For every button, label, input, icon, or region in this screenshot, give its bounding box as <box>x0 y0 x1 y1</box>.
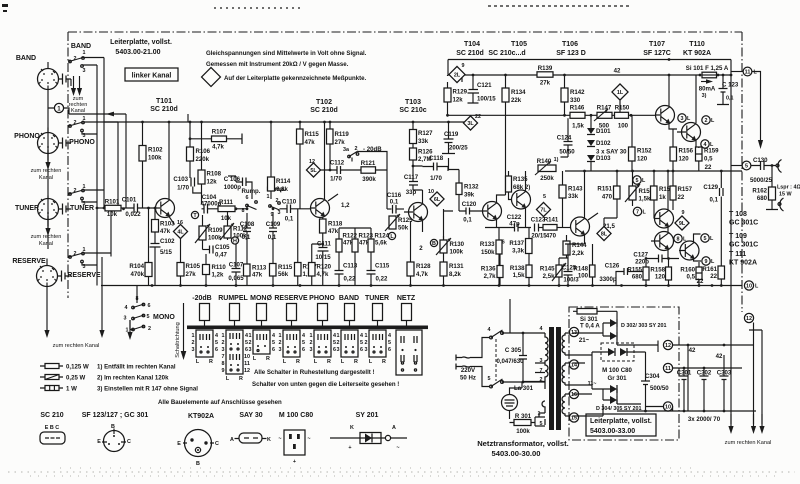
wire band vertical feed <box>48 98 69 249</box>
wire netz to switch <box>509 299 511 333</box>
wire mains to switch <box>474 338 490 387</box>
svg-text:3: 3 <box>222 347 225 353</box>
svg-text:A: A <box>392 425 396 431</box>
svg-text:R138: R138 <box>510 265 525 272</box>
switch bar <box>187 326 428 330</box>
switch box TUNER <box>365 330 392 365</box>
diode D304a in box <box>608 348 615 356</box>
svg-text:22: 22 <box>710 273 717 280</box>
svg-text:0,1: 0,1 <box>710 197 719 204</box>
svg-text:5: 5 <box>147 314 150 320</box>
svg-text:47k: 47k <box>252 272 263 279</box>
switch box -20dB <box>192 330 219 365</box>
svg-text:L: L <box>711 259 715 265</box>
svg-text:-20dB: -20dB <box>192 295 211 302</box>
speaker jack upper <box>778 160 782 173</box>
svg-text:R107: R107 <box>212 129 227 136</box>
svg-text:6L: 6L <box>434 197 441 203</box>
secondary winding 2 <box>562 363 573 385</box>
resistor R161 <box>718 266 725 279</box>
svg-text:100k: 100k <box>148 155 162 162</box>
svg-text:R101: R101 <box>105 199 120 206</box>
resistor R113 <box>244 264 251 276</box>
wire return with left arrow <box>69 113 126 115</box>
transistor T107 <box>656 106 675 125</box>
svg-text:KT 902A: KT 902A <box>729 260 757 267</box>
svg-text:R129: R129 <box>453 89 468 96</box>
svg-text:470: 470 <box>546 233 557 240</box>
svg-text:R106: R106 <box>196 148 211 155</box>
svg-text:1,2k: 1,2k <box>212 272 224 279</box>
svg-text:K: K <box>267 437 271 443</box>
svg-text:Schaltrichtung: Schaltrichtung <box>175 322 181 357</box>
svg-text:3a: 3a <box>343 147 350 153</box>
svg-text:R105: R105 <box>186 263 201 270</box>
wire switch to transformer <box>502 333 545 382</box>
connector X1 stub <box>59 74 72 85</box>
wire: return jog into rail <box>187 114 189 122</box>
svg-text:C102: C102 <box>160 238 175 245</box>
svg-text:10: 10 <box>244 354 250 360</box>
pinout SF/GC circle <box>104 431 125 452</box>
annotation measure-point diamond <box>202 68 221 87</box>
svg-text:100/15: 100/15 <box>477 96 496 103</box>
svg-text:2: 2 <box>337 340 340 346</box>
connector X3 stub <box>59 204 72 215</box>
resistor R129 <box>444 88 451 102</box>
svg-text:R131: R131 <box>449 263 464 270</box>
transistor T103 <box>409 203 428 222</box>
node 15 circled <box>569 413 578 422</box>
svg-text:1: 1 <box>222 333 225 339</box>
svg-text:5000/25: 5000/25 <box>750 177 773 184</box>
svg-text:Kanal: Kanal <box>71 108 85 114</box>
svg-text:T102: T102 <box>316 99 332 106</box>
svg-text:3: 3 <box>278 210 281 216</box>
svg-text:5/15: 5/15 <box>160 249 172 256</box>
svg-text:MONO: MONO <box>153 314 175 321</box>
svg-text:1000p: 1000p <box>224 184 242 191</box>
svg-text:2: 2 <box>705 118 708 124</box>
svg-text:R146: R146 <box>570 105 585 112</box>
svg-text:M 100 C80: M 100 C80 <box>279 412 313 419</box>
capacitor C101 <box>134 204 138 213</box>
wire: rail A-B link <box>448 60 462 83</box>
svg-text:zum rechten: zum rechten <box>31 234 62 240</box>
svg-text:SF 123/127 ; GC 301: SF 123/127 ; GC 301 <box>82 412 149 419</box>
svg-text:Leiterplatte, vollst.: Leiterplatte, vollst. <box>590 418 652 425</box>
node 5 circled <box>701 234 709 242</box>
wire bus x126 <box>125 114 127 208</box>
svg-text:R: R <box>266 356 270 362</box>
resistor R134 <box>502 88 509 102</box>
resistor R158 <box>666 267 672 280</box>
svg-text:R155: R155 <box>627 267 642 274</box>
svg-text:R134: R134 <box>511 89 526 96</box>
svg-text:C120: C120 <box>462 201 477 208</box>
svg-text:R147: R147 <box>597 105 612 112</box>
svg-text:R161: R161 <box>702 266 717 273</box>
svg-text:11: 11 <box>244 361 250 367</box>
svg-text:GC 301C: GC 301C <box>729 220 758 227</box>
fuse Si301 <box>577 309 597 315</box>
svg-text:4: 4 <box>272 333 275 339</box>
svg-text:1: 1 <box>279 333 282 339</box>
wires T104/T105 <box>472 171 526 228</box>
resistor R150 <box>615 112 629 118</box>
wire: mid-right rail D <box>565 170 742 172</box>
resistor R117 <box>295 263 302 277</box>
svg-text:SF 123 D: SF 123 D <box>556 50 586 57</box>
resistor R136 <box>497 266 503 278</box>
pinout KT902A circle <box>185 430 212 457</box>
svg-text:2: 2 <box>310 340 313 346</box>
svg-text:3L: 3L <box>467 121 474 127</box>
connector X2 PHONO <box>38 133 59 154</box>
diode D101 <box>587 128 595 134</box>
resistor R162 <box>769 187 776 200</box>
svg-text:C113: C113 <box>343 263 358 270</box>
wire phono connector lead down <box>47 128 49 161</box>
svg-text:8L: 8L <box>601 232 608 238</box>
svg-text:R157: R157 <box>678 186 693 193</box>
svg-text:R139: R139 <box>538 65 553 72</box>
svg-text:100: 100 <box>578 273 589 280</box>
resistors R122 R123 R124 <box>336 239 342 252</box>
svg-text:Rump.: Rump. <box>242 188 261 195</box>
svg-text:8: 8 <box>222 361 225 367</box>
svg-text:0,22: 0,22 <box>344 276 356 283</box>
svg-text:C110: C110 <box>282 199 297 206</box>
wire diode chain <box>590 115 592 171</box>
pot R145 <box>556 265 562 277</box>
node 10 circled psu <box>663 402 672 411</box>
svg-text:1: 1 <box>310 333 313 339</box>
resistor R154 <box>651 186 658 200</box>
svg-text:T 0,4 A: T 0,4 A <box>580 323 600 330</box>
wire transformer sec to rectifier <box>573 333 603 416</box>
svg-text:T101: T101 <box>156 98 172 105</box>
svg-text:150k: 150k <box>481 249 495 256</box>
svg-text:M 100 C80: M 100 C80 <box>602 367 632 374</box>
pot R153 <box>629 186 636 200</box>
svg-text:R145: R145 <box>540 266 555 273</box>
svg-text:15 W: 15 W <box>779 192 792 198</box>
wire -20dB bypass <box>358 152 387 210</box>
svg-text:27k: 27k <box>186 271 197 278</box>
resistor R119 <box>327 129 334 144</box>
svg-text:linker Kanal: linker Kanal <box>132 73 172 80</box>
svg-text:2: 2 <box>148 326 151 332</box>
svg-text:6: 6 <box>148 303 151 309</box>
annotation 1,2 tick <box>328 194 338 201</box>
resistor R148 <box>590 265 596 277</box>
svg-text:47k: 47k <box>160 228 171 235</box>
svg-text:RUMPEL: RUMPEL <box>218 295 248 302</box>
resistor R131 <box>440 262 447 276</box>
svg-text:3300p: 3300p <box>599 276 617 283</box>
svg-text:7: 7 <box>222 354 225 360</box>
resistor R116b 56k <box>270 264 277 277</box>
diode D302 <box>610 319 617 327</box>
svg-text:2,7k: 2,7k <box>484 273 496 280</box>
switch box RUMPEL tall <box>222 330 251 382</box>
svg-text:R143: R143 <box>568 186 583 193</box>
wire: top-right rail B (fuse rail) <box>462 74 731 76</box>
diode D303 <box>610 332 617 340</box>
wire: top-right rail A <box>448 59 731 61</box>
svg-text:0,5: 0,5 <box>704 156 713 163</box>
svg-text:E: E <box>177 441 181 447</box>
connector X4 RESERVE <box>37 266 58 287</box>
svg-text:L: L <box>642 178 646 184</box>
svg-text:R: R <box>209 359 213 365</box>
dashed switch link <box>495 339 497 381</box>
svg-text:6: 6 <box>246 195 249 201</box>
svg-text:T106: T106 <box>562 41 578 48</box>
svg-text:T110: T110 <box>689 41 705 48</box>
svg-text:Kanal: Kanal <box>39 241 53 247</box>
svg-text:9: 9 <box>705 259 708 265</box>
svg-text:0,022: 0,022 <box>125 211 141 218</box>
svg-text:PHONO: PHONO <box>69 139 95 146</box>
node 13 circled <box>569 327 578 336</box>
svg-text:Leiterplatte, vollst.: Leiterplatte, vollst. <box>110 39 172 46</box>
svg-text:220k: 220k <box>196 156 210 163</box>
svg-text:D101: D101 <box>596 128 611 135</box>
switch box BAND <box>337 330 364 365</box>
svg-text:12k: 12k <box>207 179 218 186</box>
svg-text:C129: C129 <box>703 184 718 191</box>
svg-text:5: 5 <box>388 340 391 346</box>
svg-text:0,1: 0,1 <box>463 217 472 224</box>
svg-text:22: 22 <box>697 278 704 285</box>
node 3L circled <box>678 114 686 122</box>
svg-text:5403.00-33.00: 5403.00-33.00 <box>590 428 635 435</box>
wire reserve connector lead down <box>46 259 48 319</box>
node 1 circled <box>54 103 63 112</box>
wire right outputs down <box>731 60 762 425</box>
svg-text:5: 5 <box>636 178 639 184</box>
transistor T105 <box>512 190 531 209</box>
transformer primary winding <box>539 333 548 425</box>
svg-text:1: 1 <box>126 328 129 334</box>
wire psu rails <box>617 341 756 412</box>
svg-text:5: 5 <box>488 376 491 382</box>
svg-text:T 111: T 111 <box>729 251 746 258</box>
svg-text:8: 8 <box>242 208 245 214</box>
svg-text:1k: 1k <box>659 194 666 201</box>
svg-text:0,5: 0,5 <box>687 274 696 281</box>
node 2L circled <box>702 116 710 124</box>
wire input node to R101 <box>97 207 105 209</box>
svg-text:C: C <box>127 439 131 445</box>
svg-text:L: L <box>314 359 318 365</box>
svg-text:6: 6 <box>360 347 363 353</box>
svg-text:680: 680 <box>632 274 643 281</box>
svg-text:R130: R130 <box>450 241 465 248</box>
svg-text:5403.00-21.00: 5403.00-21.00 <box>115 49 160 56</box>
svg-text:8,2k: 8,2k <box>449 271 461 278</box>
scan noise top dotted streak <box>488 5 632 7</box>
svg-text:16: 16 <box>571 392 577 398</box>
power switch S8a <box>490 336 493 339</box>
svg-text:R: R <box>296 359 300 365</box>
svg-text:100: 100 <box>618 123 629 130</box>
svg-text:8: 8 <box>677 237 680 243</box>
svg-text:1: 1 <box>337 333 340 339</box>
svg-text:5: 5 <box>704 236 707 242</box>
svg-text:L: L <box>754 70 758 76</box>
resistor R111 <box>218 206 235 212</box>
svg-text:R118: R118 <box>328 221 343 228</box>
resistor R114 <box>268 177 275 191</box>
svg-text:1/70: 1/70 <box>177 185 189 192</box>
svg-text:L: L <box>369 359 373 365</box>
svg-text:3: 3 <box>83 68 86 74</box>
svg-text:C111: C111 <box>317 241 332 248</box>
svg-text:1,5k: 1,5k <box>572 123 584 130</box>
svg-text:3): 3) <box>702 93 707 99</box>
svg-text:6,8k: 6,8k <box>276 186 288 193</box>
svg-text:1: 1 <box>267 194 270 200</box>
svg-text:100k: 100k <box>208 235 222 242</box>
svg-text:3: 3 <box>279 347 282 353</box>
svg-text:3) Einstellen mit R 147 ohne S: 3) Einstellen mit R 147 ohne Signal <box>97 386 198 393</box>
svg-text:1,2: 1,2 <box>341 202 350 209</box>
svg-text:R119: R119 <box>335 131 350 138</box>
svg-text:1 W: 1 W <box>66 386 77 393</box>
svg-text:390k: 390k <box>362 176 376 183</box>
svg-text:B: B <box>196 461 200 467</box>
svg-text:R: R <box>327 359 331 365</box>
svg-text:5403.00-30.00: 5403.00-30.00 <box>492 449 541 458</box>
pot R130 <box>440 240 447 253</box>
svg-text:5: 5 <box>272 340 275 346</box>
wire down to C130 with arrow <box>752 72 761 141</box>
svg-text:0,1: 0,1 <box>268 234 277 241</box>
wire reserve switch <box>82 253 111 265</box>
svg-text:T 108: T 108 <box>729 211 747 218</box>
main board dash-dot border right <box>741 32 743 312</box>
wire bus x111 <box>110 208 112 257</box>
pot R147 <box>597 112 612 118</box>
node 10 circled <box>744 281 753 290</box>
svg-text:1: 1 <box>365 333 368 339</box>
scan noise top left corner <box>2 4 8 12</box>
svg-text:~: ~ <box>278 436 281 442</box>
svg-text:3,3k: 3,3k <box>512 248 524 255</box>
svg-text:L: L <box>755 284 759 290</box>
connector X4 stub <box>58 271 72 282</box>
connector X3 TUNER <box>38 199 59 220</box>
resistor R101 <box>105 205 121 211</box>
svg-text:2,2k: 2,2k <box>572 250 584 257</box>
svg-text:L: L <box>283 359 287 365</box>
svg-text:NETZ: NETZ <box>397 295 416 302</box>
wire taps 3 7 2 1 5 <box>522 363 545 426</box>
svg-text:12k: 12k <box>453 97 464 104</box>
resistor R142 <box>561 88 568 102</box>
svg-text:Alle Schalter in Ruhestellung: Alle Schalter in Ruhestellung dargestell… <box>254 369 375 376</box>
svg-text:R103: R103 <box>160 221 175 228</box>
resistor R127 <box>410 130 417 144</box>
node L circled <box>388 232 395 239</box>
resistor R103 <box>152 220 159 233</box>
svg-text:0,125 W: 0,125 W <box>66 364 89 371</box>
resistor R110 <box>203 265 210 275</box>
svg-text:A: A <box>230 437 234 443</box>
svg-text:SC 210c: SC 210c <box>399 107 426 114</box>
svg-text:R128: R128 <box>416 263 431 270</box>
transistor T109 drawn <box>655 232 674 251</box>
svg-text:C105: C105 <box>215 244 230 251</box>
dashed box PCB 33.00 <box>569 307 679 440</box>
svg-text:12: 12 <box>665 343 671 349</box>
wire C116 junction <box>387 208 392 210</box>
svg-text:Netztransformator, vollst.: Netztransformator, vollst. <box>477 439 569 448</box>
svg-text:Gemessen mit Instrument 20kΩ: Gemessen mit Instrument 20kΩ / V gegen M… <box>206 61 349 68</box>
svg-text:5: 5 <box>745 164 748 170</box>
svg-text:9L: 9L <box>679 221 686 227</box>
svg-text:33k: 33k <box>568 193 579 200</box>
svg-text:3: 3 <box>681 116 684 122</box>
svg-text:1,5k: 1,5k <box>639 196 651 203</box>
arrows zum rechten kanal (band) <box>71 76 76 96</box>
svg-text:R156: R156 <box>679 148 694 155</box>
svg-text:22: 22 <box>678 194 685 201</box>
svg-text:SC 210d: SC 210d <box>456 50 484 57</box>
resistor R159 <box>696 147 703 161</box>
capacitor C102 electrolytic <box>150 244 161 248</box>
transistor T108 drawn <box>655 209 674 228</box>
svg-text:R112: R112 <box>233 226 248 233</box>
resistor R156 <box>670 147 677 161</box>
wire diodes d304/305 <box>592 352 646 404</box>
svg-text:3: 3 <box>124 316 127 322</box>
svg-text:1: 1 <box>83 50 86 56</box>
svg-text:1,5k: 1,5k <box>513 272 525 279</box>
wire phono switch <box>82 122 118 134</box>
svg-text:0,1: 0,1 <box>390 199 399 206</box>
svg-text:10k: 10k <box>221 215 232 222</box>
svg-text:C117: C117 <box>404 174 419 181</box>
svg-text:D102: D102 <box>596 140 611 147</box>
svg-text:50 Hz: 50 Hz <box>460 375 476 382</box>
svg-text:~: ~ <box>396 445 399 451</box>
wire band switch to bus <box>82 58 104 66</box>
svg-text:D 302/ 303 SY 201: D 302/ 303 SY 201 <box>621 323 666 329</box>
diamond 1L <box>619 101 621 116</box>
svg-text:10: 10 <box>665 405 671 411</box>
svg-text:D103: D103 <box>596 155 611 162</box>
svg-text:1: 1 <box>192 333 195 339</box>
svg-text:5: 5 <box>302 340 305 346</box>
resistor R141 <box>543 225 557 231</box>
wire: ground rail <box>101 285 742 287</box>
svg-text:2: 2 <box>540 377 543 383</box>
svg-text:6: 6 <box>302 347 305 353</box>
svg-text:R120: R120 <box>317 264 332 271</box>
resistor R160 <box>696 267 702 280</box>
svg-text:10k: 10k <box>107 211 118 218</box>
svg-text:12: 12 <box>244 368 250 374</box>
svg-text:zum rechten: zum rechten <box>31 168 62 174</box>
resistor R152 <box>629 147 636 161</box>
svg-text:R121: R121 <box>361 160 376 167</box>
svg-text:R133: R133 <box>480 241 495 248</box>
transistor T111 drawn <box>680 241 699 260</box>
